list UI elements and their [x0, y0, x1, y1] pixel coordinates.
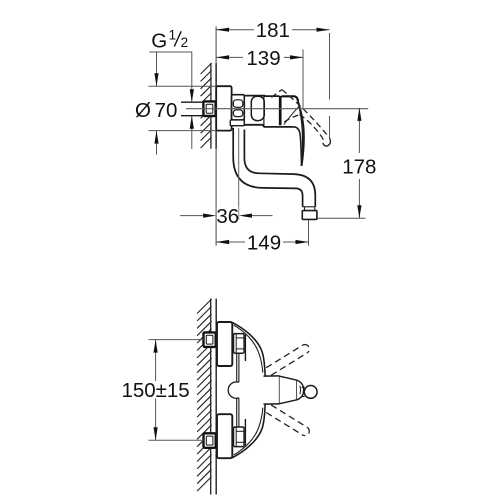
150 +/- 15 dimension: [149, 339, 204, 341]
bottom escutcheon: [217, 414, 232, 458]
body front edge: [244, 335, 246, 362]
diameter 70: [149, 85, 217, 87]
G1/2 supply pipe: [181, 102, 204, 116]
cap joint thick line: [279, 96, 282, 125]
178: [318, 217, 366, 219]
svg-text:G: G: [151, 30, 167, 53]
181: [329, 33, 331, 100]
svg-text:Ø: Ø: [135, 99, 151, 122]
G 1/2 leader: [149, 52, 192, 102]
svg-text:1: 1: [169, 28, 177, 43]
139: [302, 50, 304, 109]
svg-text:70: 70: [155, 99, 178, 122]
cartridge neck: [264, 376, 280, 404]
svg-text:178: 178: [342, 155, 376, 178]
knob: [304, 386, 317, 399]
knob stem: [302, 386, 305, 388]
wall left line: [210, 63, 212, 149]
body back edge with boss: [236, 353, 238, 382]
body crescent: [232, 322, 265, 458]
aerator: [302, 211, 317, 220]
escutcheon (side): [216, 86, 231, 130]
cartridge dome: [251, 96, 264, 120]
union nut: [232, 95, 245, 120]
top escutcheon: [217, 322, 232, 366]
svg-text:36: 36: [216, 205, 239, 228]
swing arc: [284, 105, 300, 125]
bottom hex nut: [234, 427, 245, 447]
wall face / extension line: [215, 27, 217, 246]
top union: square: [204, 332, 216, 347]
bottom union: square: [204, 433, 216, 448]
top hex nut: [234, 334, 245, 354]
fillet to blade inner edge: [294, 127, 302, 166]
dashed lever (raised): [271, 90, 281, 98]
body: [244, 95, 279, 98]
svg-text:181: 181: [256, 19, 290, 42]
149: [308, 220, 310, 246]
wall lines: [210, 299, 212, 495]
wall hatching: [201, 63, 212, 148]
svg-text:150±15: 150±15: [121, 379, 189, 402]
centerlines: [186, 108, 368, 110]
svg-text:2: 2: [181, 35, 189, 50]
36: [180, 215, 204, 217]
nut collar: [230, 120, 244, 126]
wall union square: [203, 101, 215, 116]
svg-text:139: 139: [246, 47, 280, 70]
svg-text:149: 149: [247, 232, 281, 255]
handle frustum: [280, 376, 297, 404]
dome end: [297, 380, 304, 400]
dashed lever positions: [266, 345, 309, 436]
lever hub + blade: [282, 96, 299, 101]
wall hatching: [197, 299, 212, 491]
spout: [233, 128, 302, 207]
